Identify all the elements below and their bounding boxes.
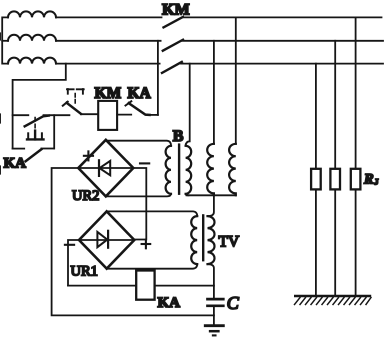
wire to resistor RJ1 (315, 64, 317, 296)
wire phase3 right (181, 63, 383, 65)
wire (2, 17, 8, 63)
rectifier UR1 bridge outline (79, 211, 134, 268)
resistor RJ2 (330, 169, 340, 190)
wire B secondary bottom to bus (186, 194, 189, 196)
UR2 diode (99, 160, 110, 176)
wire control return to phase2 (157, 41, 159, 115)
wire B primary bottom (106, 194, 171, 197)
ground (below capacitor) (205, 326, 223, 336)
transformer TV primary winding (208, 216, 215, 264)
wire capacitor to ground (213, 307, 215, 325)
wire to resistor RJ3 (355, 17, 357, 296)
wire (2, 40, 8, 42)
svg-text:R: R (363, 171, 374, 187)
wire UR1 minus to KA coil line (68, 240, 79, 286)
svg-text:KM: KM (95, 85, 122, 102)
svg-text:KM: KM (162, 2, 190, 19)
wire phase1 left (56, 16, 162, 18)
wire UR1 top to TV secondary top (107, 211, 198, 216)
resistor RJ3 (351, 169, 361, 190)
svg-text:TV: TV (219, 233, 240, 250)
rectifier UR2 bridge outline (78, 140, 133, 197)
svg-text:B: B (173, 128, 184, 145)
transformer B primary winding (166, 146, 171, 194)
wire tap phase1 to winding M2 (235, 17, 237, 143)
UR2 internal line (78, 167, 133, 169)
svg-text:UR1: UR1 (71, 263, 98, 279)
winding M1 (207, 144, 214, 195)
wire winding bottom bus (187, 194, 236, 196)
svg-text:KA: KA (128, 85, 152, 102)
wire tap phase2 to winding M1 (213, 41, 215, 144)
label minus (UR1) (65, 244, 74, 246)
UR1 diode (97, 231, 108, 248)
label minus (UR2) (140, 162, 149, 164)
wire to resistor RJ2 (334, 41, 336, 296)
wire TV primary bottom to capacitor (208, 264, 214, 298)
wire phase2 right (182, 40, 383, 42)
label + (UR1) (142, 240, 151, 249)
wire phase3 left (56, 63, 160, 65)
UR1 internal line (79, 239, 134, 241)
wire KA coil line (68, 285, 214, 287)
wire KM coil to KA contact (117, 114, 131, 116)
wire tap phase3 to control (13, 64, 66, 149)
wire B primary top (106, 141, 171, 146)
contactor KM contact 3 (162, 62, 182, 73)
contactor KM contact 1 (164, 17, 184, 28)
contactor KM contact 2 (163, 40, 183, 51)
stator winding L2 (8, 35, 56, 41)
ground (right earth) (295, 296, 372, 305)
scan edge artifacts (0, 33, 1, 174)
transformer TV secondary winding (191, 216, 197, 264)
wire UR2 minus to UR1 plus (133, 168, 146, 240)
wire UR1 bottom to TV secondary bottom (107, 264, 198, 269)
winding M2 (229, 144, 236, 195)
wire phase2 left (56, 40, 161, 42)
stator winding L3 (8, 58, 56, 64)
relay coil KA (136, 271, 154, 300)
manual switch actuator (27, 118, 44, 140)
wire M bus down to TV primary (208, 195, 214, 216)
capacitor C (208, 299, 224, 306)
label + (UR2) (84, 151, 93, 160)
svg-text:KA: KA (158, 295, 181, 311)
wire phase1 right (182, 16, 381, 18)
stator winding L1 (8, 11, 56, 17)
svg-text:KA: KA (4, 155, 27, 171)
transformer B core (178, 143, 180, 195)
svg-text:UR2: UR2 (72, 188, 99, 204)
resistor RJ1 (311, 169, 321, 190)
wire B secondary top to phase3 (186, 64, 190, 146)
transformer B secondary winding (186, 146, 192, 194)
relay contact KA (seal-in) (13, 115, 55, 161)
manual switch contact (left) (13, 115, 70, 126)
transformer TV core (202, 214, 204, 261)
wire UR2 plus to bottom rail (52, 168, 214, 315)
contactor coil KM (98, 101, 117, 130)
relay contact KA (NC, interlock) (126, 101, 158, 115)
svg-text:J: J (374, 177, 379, 187)
stop pushbutton (63, 89, 98, 114)
svg-text:C: C (227, 293, 240, 313)
